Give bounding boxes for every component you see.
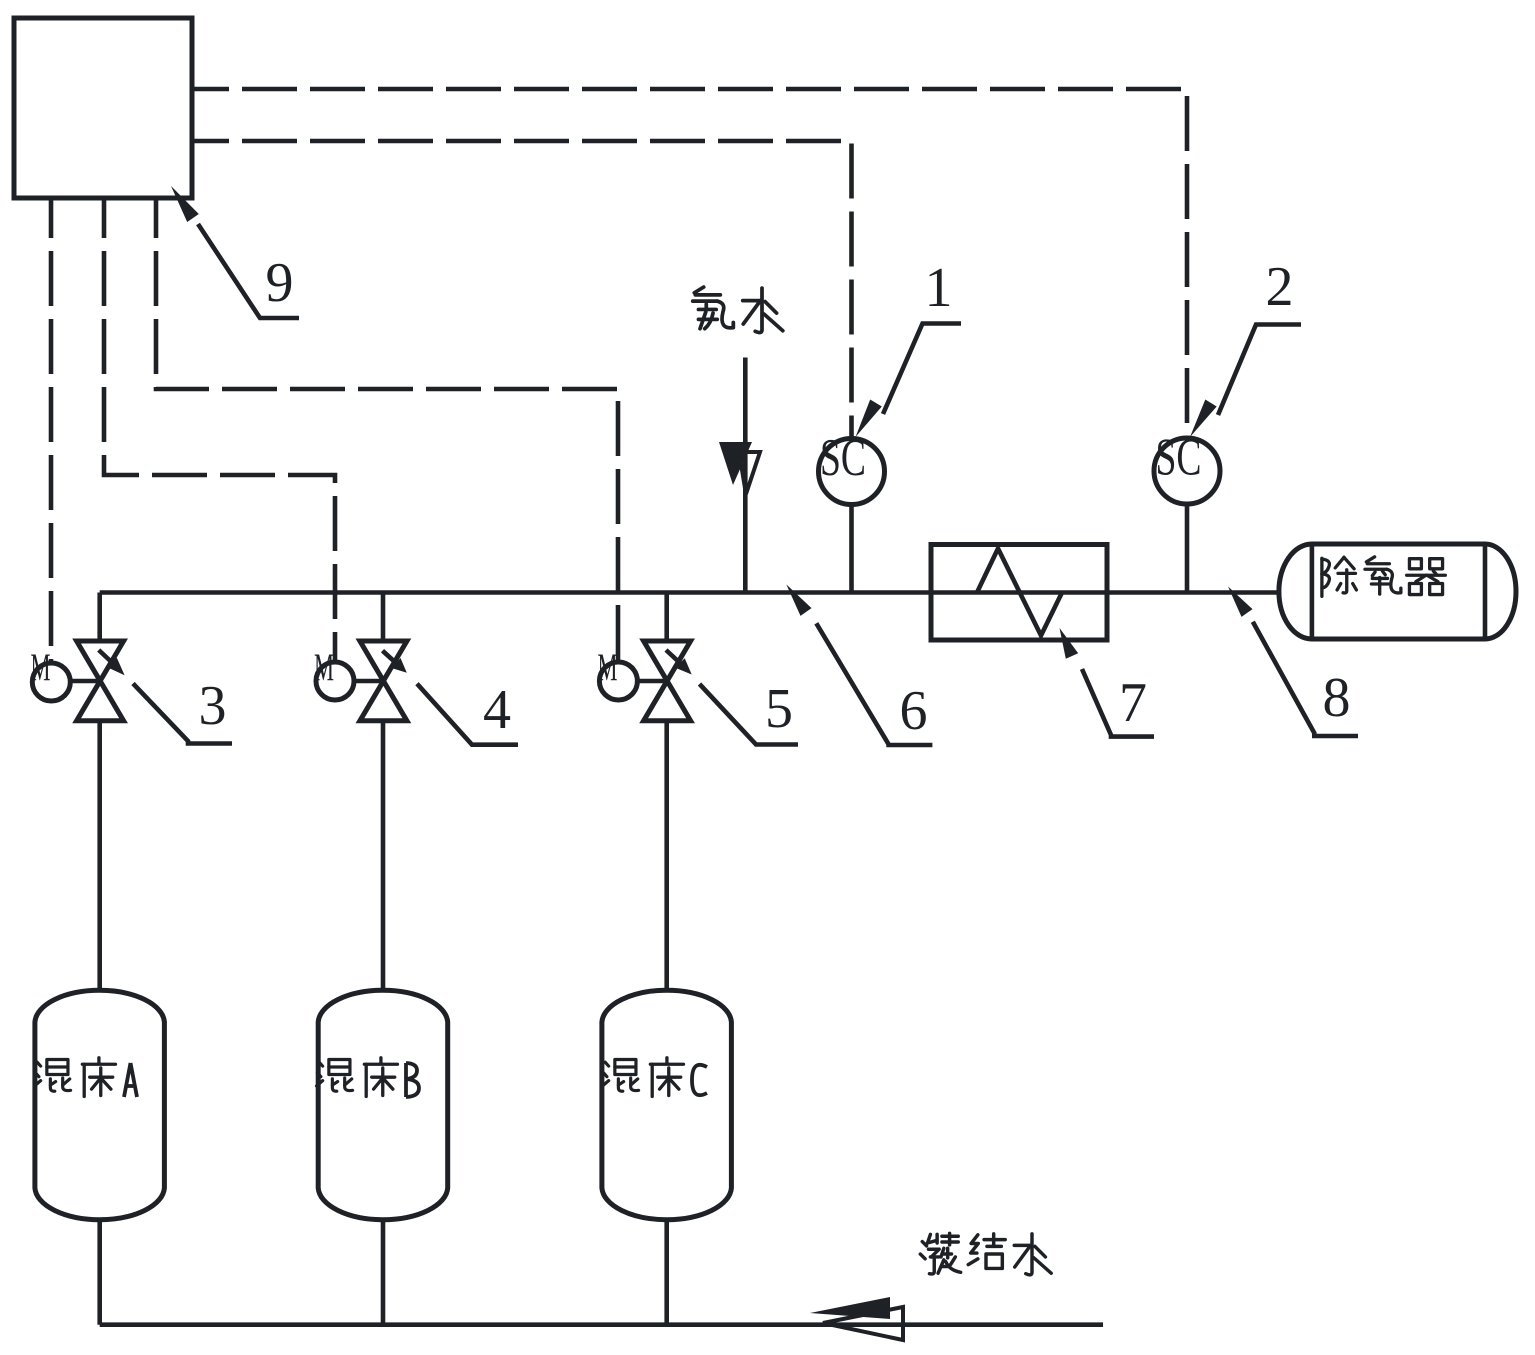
SC controller 2 circle (1154, 438, 1220, 504)
callout 3 (valve 3) (99, 650, 112, 663)
ammonia arrow hollow (739, 452, 760, 494)
tank C (mixed bed C) (602, 990, 732, 1219)
condensate arrow solid (810, 1297, 890, 1319)
branch pipe to valve 4 (381, 593, 386, 642)
svg-text:SC: SC (820, 429, 866, 487)
svg-text:4: 4 (483, 679, 511, 741)
tank C label 混床C (603, 1060, 639, 1092)
dashed control line: box to SC controller 1 (192, 141, 852, 438)
label 凝结水 (920, 1233, 960, 1274)
svg-text:M: M (598, 646, 618, 689)
deaerator seam left (1310, 544, 1315, 639)
label 氨水 (693, 287, 734, 329)
callout 9 (controller box) (171, 186, 199, 222)
svg-text:3: 3 (199, 675, 227, 737)
pipe tank A to bottom line (97, 1221, 102, 1325)
callout 1 (SC controller 1) (856, 400, 882, 438)
branch pipe to valve 3 (97, 593, 102, 642)
ammonia inlet pipe (743, 358, 748, 593)
tank A label 混床A (35, 1060, 71, 1092)
callout 4 (valve 4) (383, 651, 397, 663)
pipe tank C to bottom line (664, 1221, 669, 1325)
pipe tank B to bottom line (381, 1221, 386, 1325)
deaerator capsule 除氧器 (1279, 544, 1516, 639)
callout 7 (heat exchanger) (1060, 628, 1079, 659)
branch pipe to valve 5 (664, 593, 669, 642)
svg-text:7: 7 (1119, 672, 1147, 734)
label 除氧器 (1322, 557, 1357, 596)
main condensate header line 6 (100, 590, 1278, 595)
tank B (mixed bed B) (318, 990, 448, 1219)
svg-text:M: M (31, 646, 51, 689)
motor circle M3 (599, 662, 637, 700)
bottom condensate line (100, 1322, 1103, 1327)
callout 2 (SC controller 2) (1190, 400, 1217, 438)
svg-text:9: 9 (266, 252, 294, 314)
dashed control line: box to valve motor M2 (104, 198, 335, 662)
tank A (mixed bed A) (35, 990, 165, 1219)
valve 5 bowtie (644, 641, 691, 721)
SC1 stub to header (849, 505, 854, 593)
callout 8 (header to deaerator) (1228, 587, 1253, 617)
tank B label 混床B (317, 1060, 353, 1092)
callout 6 (header line) (786, 584, 811, 616)
svg-text:2: 2 (1266, 256, 1294, 318)
svg-text:6: 6 (900, 680, 928, 742)
callout 5 (valve 5) (666, 650, 680, 663)
dashed control line: box to valve motor M1 (49, 198, 54, 663)
dashed control line: box to SC controller 2 (192, 89, 1187, 438)
link M2 to valve (353, 679, 384, 684)
condensate arrow hollow (823, 1307, 903, 1340)
pipe valve 3 to tank A (97, 721, 102, 989)
svg-text:8: 8 (1323, 667, 1351, 729)
pipe valve 5 to tank C (664, 721, 669, 989)
heat exchanger zigzag (977, 549, 1062, 636)
valve 4 bowtie (360, 641, 407, 721)
valve 3 bowtie (77, 641, 124, 721)
deaerator seam right (1483, 544, 1488, 639)
controller box 9 (14, 18, 192, 198)
pipe valve 4 to tank B (381, 721, 386, 989)
link M3 to valve (636, 679, 667, 684)
svg-text:M: M (314, 646, 334, 689)
svg-text:SC: SC (1156, 429, 1202, 487)
SC controller 1 circle (819, 439, 885, 505)
SC2 stub to header (1185, 504, 1190, 593)
motor circle M2 (316, 662, 354, 700)
motor circle M1 (32, 663, 70, 701)
link M1 to valve (69, 679, 100, 684)
svg-text:5: 5 (765, 678, 793, 740)
heat exchanger box 7 (931, 545, 1107, 641)
dashed control line: box to valve motor M3 (156, 198, 618, 662)
ammonia arrow solid (719, 442, 752, 485)
svg-text:1: 1 (925, 257, 953, 319)
